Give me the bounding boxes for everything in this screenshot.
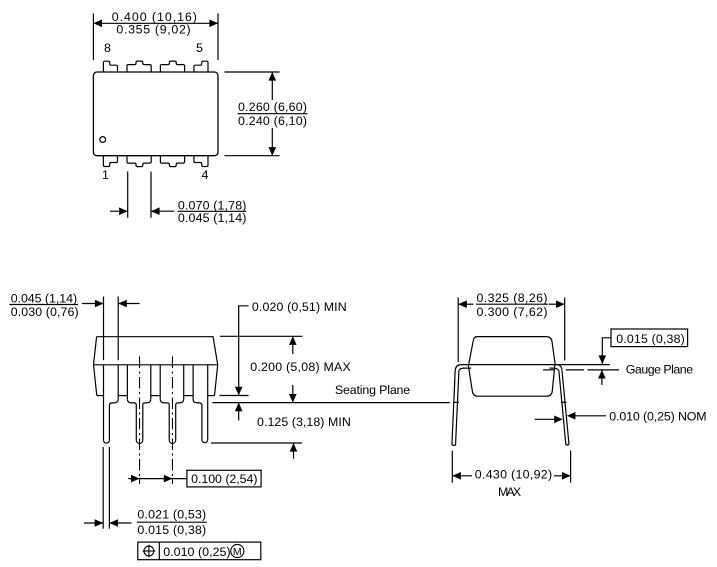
dim 0.070 left arrow	[110, 210, 128, 212]
svg-text:0.020 (0,51) MIN: 0.020 (0,51) MIN	[252, 300, 347, 314]
dim 0.100 box	[187, 470, 261, 487]
seating plane tick across right lead	[561, 401, 566, 403]
dim 0.260 top extension line	[225, 71, 280, 73]
lead 3 centerline	[171, 357, 173, 484]
svg-text:0.015 (0,38): 0.015 (0,38)	[616, 332, 685, 346]
pin 1 (top view)	[103, 156, 117, 167]
svg-text:0.030 (0,76): 0.030 (0,76)	[11, 305, 79, 319]
svg-text:Gauge Plane: Gauge Plane	[626, 362, 693, 376]
dim 0.325 left arrow	[458, 303, 473, 305]
package body (top view)	[93, 72, 218, 156]
svg-text:0.045 (1,14): 0.045 (1,14)	[11, 291, 77, 305]
dim 0.021 left ext line	[102, 447, 104, 529]
position tolerance symbol	[144, 546, 154, 556]
seating plane tick across left lead	[453, 401, 459, 403]
dim 0.400 dimension line and fraction bar	[93, 22, 218, 24]
pin 8 (top view)	[103, 61, 117, 72]
dim 0.010 right leader arrow	[574, 415, 606, 417]
svg-text:0.010 (0,25) NOM: 0.010 (0,25) NOM	[609, 410, 706, 424]
svg-text:0.240 (6,10): 0.240 (6,10)	[238, 114, 307, 128]
svg-text:0.125 (3,18) MIN: 0.125 (3,18) MIN	[257, 415, 351, 429]
lead top line with bends	[455, 365, 610, 371]
side lead 2	[126, 365, 128, 399]
dim 0.430 left ext line	[451, 451, 453, 483]
dim 0.200 up arrow	[292, 336, 294, 354]
svg-text:0.010 (0,25): 0.010 (0,25)	[163, 545, 230, 559]
dim 0.070 right extension line	[150, 172, 152, 218]
fcf M modifier	[231, 544, 244, 557]
dim 0.260 bottom extension line	[225, 155, 280, 157]
end view right lead	[562, 371, 569, 445]
dim 0.045 left ext line	[103, 297, 105, 361]
svg-text:5: 5	[196, 41, 203, 55]
side view body outline	[94, 337, 218, 396]
svg-text:0.200 (5,08) MAX: 0.200 (5,08) MAX	[250, 360, 351, 374]
dim 0.045 fraction bar	[9, 304, 78, 306]
seating plane line	[212, 402, 449, 404]
dim 0.400 right extension line	[217, 14, 219, 61]
side lead 4	[207, 365, 209, 440]
dim 0.045 right ext line	[117, 297, 119, 361]
dim 0.015 leader	[602, 338, 611, 353]
dim 0.070 right arrow	[151, 210, 174, 212]
end view left lead	[452, 371, 455, 446]
dim 0.325 left ext line	[457, 297, 459, 362]
dim 0.020 leader	[239, 306, 249, 385]
svg-text:Seating Plane: Seating Plane	[335, 383, 410, 397]
dim 0.125 lower arrow	[293, 443, 295, 459]
dim 0.015 box	[611, 329, 688, 347]
svg-text:8: 8	[104, 41, 111, 55]
dim 0.021 right ext line	[108, 447, 110, 529]
pin 3 (top view)	[160, 156, 184, 167]
svg-text:0.325 (8,26): 0.325 (8,26)	[477, 291, 548, 305]
svg-text:0.355 (9,02): 0.355 (9,02)	[116, 23, 190, 37]
dim 0.325 fraction bar	[476, 303, 548, 305]
dim 0.015 down arrow	[601, 353, 603, 364]
svg-text:0.045 (1,14): 0.045 (1,14)	[178, 211, 247, 225]
svg-text:MAX: MAX	[498, 485, 521, 499]
dim 0.430 left arrow	[452, 475, 472, 477]
dim 0.010 left leader arrow	[535, 418, 556, 420]
svg-text:1: 1	[102, 168, 109, 182]
dim 0.100 dimension line	[128, 478, 187, 480]
feature control frame box	[138, 542, 261, 560]
svg-text:0.100 (2,54): 0.100 (2,54)	[191, 472, 257, 486]
dim 0.430 right arrow	[554, 475, 571, 477]
dim 0.021 fraction bar	[137, 521, 207, 523]
pin 5 (top view)	[194, 61, 208, 72]
dim 0.400 left arrow	[93, 20, 102, 28]
gauge plane dashed line	[543, 369, 554, 371]
pin 2 (top view)	[127, 156, 151, 167]
dim 0.260 down arrow	[271, 128, 273, 156]
dim 0.045 right arrow	[118, 303, 139, 305]
side view parting line	[94, 364, 218, 366]
dim 0.020 arrow shaft	[238, 385, 240, 396]
svg-text:4: 4	[202, 168, 209, 182]
lead tip extension line	[211, 442, 302, 444]
dim 0.021 right arrow	[109, 522, 131, 524]
dim 0.430 right ext line	[570, 451, 572, 483]
side view body bottom edge segments	[97, 395, 104, 397]
pin 4 (top view)	[194, 156, 208, 167]
dim 0.325 right arrow	[549, 303, 565, 305]
lead 2 centerline	[139, 357, 141, 484]
dim 0.045 left arrow	[82, 303, 104, 305]
dim 0.260 up arrow	[271, 72, 273, 100]
dim 0.015 up arrow	[601, 370, 603, 385]
lead inner line left	[459, 368, 471, 371]
side lead 3	[159, 365, 161, 399]
dim 0.020 extension tick	[220, 395, 249, 397]
end view body outline	[468, 337, 555, 397]
dim 0.020 down arrow	[235, 387, 243, 396]
svg-text:0.430 (10,92): 0.430 (10,92)	[475, 468, 552, 482]
svg-text:0.021 (0,53): 0.021 (0,53)	[137, 508, 206, 522]
dim 0.200 down arrow	[292, 385, 294, 403]
pin 1 index mark	[100, 137, 106, 143]
dim 0.400 left extension line	[92, 14, 94, 61]
dim 0.021 left arrow	[84, 522, 103, 524]
svg-text:0.015 (0,38): 0.015 (0,38)	[137, 523, 206, 537]
dim 0.325 right ext line	[564, 297, 566, 360]
pin 6 (top view)	[160, 61, 184, 72]
dim 0.400 right arrow	[209, 20, 218, 28]
svg-text:0.300 (7,62): 0.300 (7,62)	[477, 305, 548, 319]
dim 0.260 fraction bar	[238, 113, 308, 115]
dim 0.200 top extension tick	[220, 335, 303, 337]
pin 7 (top view)	[127, 61, 151, 72]
side lead 1	[103, 365, 105, 440]
lead inner line right	[550, 368, 559, 371]
dim 0.125 upper arrow	[238, 403, 240, 421]
svg-text:0.260 (6,60): 0.260 (6,60)	[238, 100, 307, 114]
dim 0.070 left extension line	[127, 172, 129, 218]
svg-text:M: M	[233, 546, 242, 558]
dim 0.070 fraction bar	[177, 210, 246, 212]
